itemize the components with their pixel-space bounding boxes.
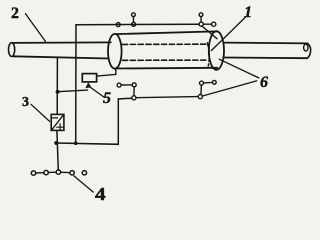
leader line 1 [211, 17, 245, 50]
box 3 plus horizontal [57, 126, 64, 128]
contact circle C [212, 22, 216, 26]
rod right section bottom edge [224, 57, 308, 60]
contact circle A [199, 13, 203, 17]
rod right end cap inner hook [304, 44, 308, 51]
wire D-E [121, 84, 132, 86]
leader line 3 [31, 104, 50, 121]
contact row circle 3 [56, 170, 60, 174]
leader line 6 lower [203, 81, 257, 96]
contact circle on bus left [116, 23, 120, 27]
label 5 [103, 90, 111, 108]
hidden rod upper dashed line [123, 43, 207, 45]
contact row wire 2-3 [48, 171, 56, 173]
wire B to cylinder right [202, 26, 217, 39]
wire E-F [133, 87, 135, 96]
contact row wire 3-4 [61, 171, 70, 174]
label 1 [244, 4, 252, 22]
wire G-H [200, 85, 203, 94]
rod left end cap [9, 43, 15, 57]
wire F-G [136, 97, 198, 98]
contact stem on top bus [132, 16, 134, 22]
arrowhead of leader 5 [85, 82, 91, 88]
top bus wire [76, 23, 199, 26]
rod left section top edge [13, 41, 111, 44]
contact circle F [132, 96, 136, 100]
contact circle small top [132, 13, 136, 17]
contact circle E [132, 83, 136, 87]
cylinder C left ellipse [108, 34, 122, 69]
leader line 5 [90, 87, 104, 97]
rod left section bottom edge [13, 56, 109, 58]
frame left vertical wire [75, 25, 77, 144]
leader line 6 upper [219, 59, 259, 78]
leader line 2 [25, 14, 45, 42]
rod right end cap [307, 43, 310, 58]
contact row circle 1 [31, 171, 35, 175]
wire box3 to contact row [57, 130, 58, 170]
rod right section top edge [223, 42, 307, 45]
hidden rod lower dashed line [123, 59, 207, 61]
contact circle H [200, 81, 204, 85]
wire H-I [204, 81, 213, 84]
label 6 [260, 74, 268, 92]
wire B to C [203, 23, 211, 25]
contact circle on bus with stem [132, 22, 136, 26]
contact circle D [117, 83, 121, 87]
junction dot bottom left [54, 141, 58, 145]
label 3 [22, 95, 29, 111]
box 3 diagonal [52, 115, 63, 130]
cylinder top edge [115, 31, 216, 34]
label 4 [95, 184, 106, 205]
left vertical wire rod to box3 [56, 58, 58, 114]
wire junction to box5 area [58, 90, 88, 92]
wire cylinder bottom to box5 [97, 69, 116, 76]
box 5 sensor [82, 74, 96, 82]
bottom wire [56, 98, 132, 144]
box 3 inner tick [52, 117, 58, 119]
hidden inner end dashed arc [207, 43, 209, 66]
contact circle B [199, 22, 203, 26]
leader line 4 [74, 176, 93, 192]
contact row circle 4 [70, 171, 74, 175]
cylinder right ellipse [209, 31, 224, 70]
contact row wire 1-2 [36, 172, 44, 174]
contact row circle 2 [44, 170, 48, 174]
box 3 electromagnet [51, 114, 64, 130]
junction dot on left vertical [56, 90, 60, 94]
contact circle G [198, 95, 202, 99]
contact row circle 5 [82, 171, 86, 175]
contact circle I [212, 80, 216, 84]
contact stem B-A [200, 17, 202, 22]
cylinder bottom edge [114, 67, 217, 70]
junction dot bottom mid [74, 141, 78, 145]
box 3 plus vertical [59, 124, 61, 130]
label 2 [11, 5, 19, 23]
